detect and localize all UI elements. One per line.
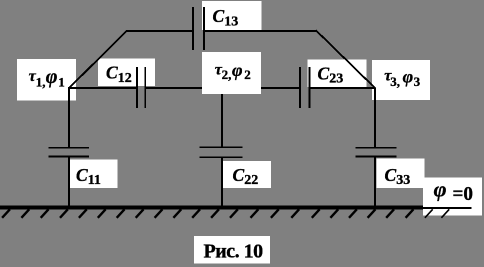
capacitor C11 plates xyxy=(49,148,90,157)
capacitor C33 plates xyxy=(356,148,397,157)
capacitor C12 plates xyxy=(137,67,145,108)
label box tau2,phi2 (node 2) xyxy=(202,52,261,94)
label box C13 xyxy=(202,1,262,30)
ground plane thick line xyxy=(0,206,423,210)
node 2 label tau2,phi2 xyxy=(215,60,251,82)
capacitor C23 plates xyxy=(300,67,310,108)
svg-text:1: 1 xyxy=(58,74,65,89)
svg-text:φ: φ xyxy=(403,66,414,86)
wire: node 2 down to C22 xyxy=(221,88,223,148)
label box tau1,phi1 (node 1) xyxy=(17,59,76,101)
capacitor C22 plates xyxy=(200,147,243,157)
label box C33 xyxy=(376,159,424,188)
wire: middle bus C12 to C23 xyxy=(145,87,300,89)
wire: node 1 down to C11 xyxy=(68,88,70,148)
wire: middle bus C23 to node 3 xyxy=(310,87,376,89)
wire: top left segment to C13 xyxy=(126,30,193,32)
ground plane thin line over phi=0 label xyxy=(423,207,472,209)
ground potential label phi=0 xyxy=(434,177,473,206)
node 3 label tau3,phi3 xyxy=(384,66,420,89)
label box C22 xyxy=(222,161,271,188)
svg-text:=0: =0 xyxy=(453,183,474,205)
label box phi=0 xyxy=(423,178,482,216)
wire: C33 to ground xyxy=(374,157,376,207)
svg-text:1,: 1, xyxy=(36,74,46,89)
svg-text:2: 2 xyxy=(244,67,251,82)
ground hatching xyxy=(2,209,449,218)
node 1 label tau1,phi1 xyxy=(29,66,65,89)
wire: C11 to ground xyxy=(68,157,70,207)
svg-text:φ: φ xyxy=(232,60,243,80)
wire: middle bus node1 to C12 xyxy=(68,87,137,89)
svg-text:3,: 3, xyxy=(390,74,400,89)
wire: node 3 down to C33 xyxy=(374,88,376,148)
svg-text:2,: 2, xyxy=(222,67,232,82)
wire: top right segment from C13 xyxy=(204,30,317,32)
caption box xyxy=(194,236,270,264)
wire: diagonal from node 1 up to top wire xyxy=(69,30,127,88)
wire: diagonal from top wire down to node 3 xyxy=(316,30,376,88)
capacitor C13 plates xyxy=(193,7,204,50)
svg-text:φ: φ xyxy=(46,66,58,88)
label box tau3,phi3 (node 3) xyxy=(372,60,430,100)
label box C11 xyxy=(69,160,118,188)
label box C12 xyxy=(98,59,155,86)
svg-text:Рис. 10: Рис. 10 xyxy=(204,241,264,263)
svg-text:3: 3 xyxy=(414,74,421,89)
wire: C22 to ground xyxy=(221,158,223,207)
label box C23 xyxy=(308,59,367,87)
svg-text:φ: φ xyxy=(434,177,447,202)
